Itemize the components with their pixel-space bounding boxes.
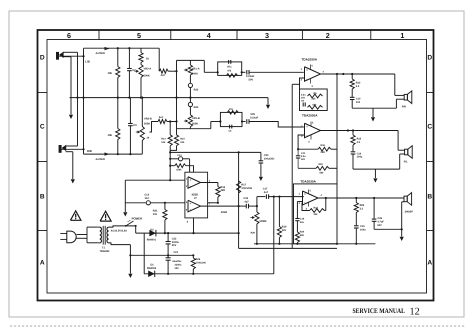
capacitor C2	[128, 48, 130, 68]
circle R23 link	[189, 98, 191, 103]
svg-text:6: 6	[67, 31, 71, 40]
wire gnd stub ch2	[374, 169, 376, 178]
junction supply top	[336, 73, 338, 75]
svg-text:22R: 22R	[321, 151, 326, 154]
circle R22 link	[189, 75, 191, 83]
power switch SW1	[126, 221, 134, 226]
capacitor C14 104 zobel2	[351, 151, 356, 153]
svg-text:R23: R23	[194, 106, 199, 109]
capacitor C3	[129, 98, 131, 124]
svg-text:25V: 25V	[172, 244, 177, 247]
svg-text:8: 8	[187, 220, 189, 223]
sub amp box	[294, 184, 338, 244]
capacitor C26 4.7uF output	[373, 198, 375, 219]
signal arrow L channel	[105, 47, 110, 50]
warning triangle 1	[70, 211, 81, 220]
speaker SP3 SW/SP	[404, 196, 407, 202]
capacitor C15 104 zobel3	[354, 225, 359, 227]
svg-text:5: 5	[137, 31, 141, 40]
svg-text:4558: 4558	[192, 192, 199, 196]
svg-text:500K: 500K	[144, 75, 150, 78]
wire U1B output	[201, 205, 239, 207]
capacitor C7 0.22uF	[246, 119, 248, 124]
capacitor C11 fb2	[297, 149, 299, 156]
svg-text:VR1-A: VR1-A	[192, 67, 200, 70]
warning triangle 2	[100, 211, 111, 221]
resistor R4 4u7 series	[158, 119, 167, 123]
svg-text:R23: R23	[314, 206, 319, 209]
svg-text:104u: 104u	[357, 156, 363, 159]
svg-text:-: -	[306, 133, 307, 137]
svg-text:RN4001: RN4001	[147, 239, 157, 242]
wire jack2 shield down	[72, 152, 74, 179]
diode D2 RN4001	[149, 230, 156, 237]
svg-text:+: +	[190, 202, 192, 206]
svg-text:500K: 500K	[192, 123, 198, 126]
wire fb box to C4	[242, 71, 246, 73]
resistor R1 1k	[140, 48, 142, 52]
svg-text:R71: R71	[227, 66, 232, 69]
svg-text:+: +	[306, 124, 308, 128]
svg-text:4: 4	[323, 70, 325, 73]
svg-text:10k: 10k	[108, 72, 113, 75]
wire rail corner down	[169, 152, 171, 180]
resistor R14 10k	[169, 122, 171, 135]
junction mix bus top	[175, 70, 177, 72]
supply vertical rail	[336, 74, 338, 185]
resistor R24 680	[295, 232, 299, 243]
svg-text:4u750H: 4u750H	[96, 158, 105, 161]
outer amp rail	[239, 247, 337, 249]
svg-text:22M4: 22M4	[221, 211, 228, 214]
potentiometer VR2-A 500K	[139, 65, 143, 78]
parallel RC loop R7/C5	[218, 62, 242, 76]
wire speaker2 terminals	[398, 149, 405, 151]
svg-text:2.2u: 2.2u	[301, 93, 306, 96]
resistor R15 22k	[176, 122, 178, 135]
inner drawing frame	[47, 40, 427, 294]
ground arrow input	[123, 212, 127, 216]
svg-text:C: C	[427, 123, 432, 130]
svg-text:50V: 50V	[377, 224, 382, 227]
wire IC2 output	[321, 73, 395, 75]
svg-text:R20: R20	[251, 232, 256, 235]
svg-text:10k: 10k	[153, 213, 158, 216]
svg-text:104: 104	[145, 197, 150, 200]
svg-text:4u7: 4u7	[159, 116, 164, 119]
junction amp rail R19	[278, 243, 280, 245]
junction IC2 out a	[342, 73, 344, 75]
svg-text:4: 4	[321, 194, 323, 197]
resistor R16 100k	[169, 165, 171, 167]
svg-text:A: A	[40, 260, 45, 267]
ground arrow ch2	[373, 178, 377, 182]
resistor R11 680 fb1	[308, 105, 323, 109]
svg-text:B: B	[427, 193, 432, 200]
junction R19 top	[278, 196, 280, 198]
junction IC4 out C26	[373, 197, 375, 199]
svg-text:5: 5	[312, 122, 314, 125]
svg-text:1k: 1k	[147, 137, 150, 140]
svg-text:5: 5	[312, 65, 314, 68]
junction IC3 out b	[347, 129, 349, 131]
resistor R12 2.2 zobel	[351, 74, 353, 79]
bottom scan artifact dotted line	[10, 325, 466, 327]
wire IC3 output	[321, 130, 399, 132]
parallel RC loop R9/C6	[220, 112, 242, 126]
capacitor C22 3300u	[167, 233, 169, 241]
svg-text:VR2-B: VR2-B	[144, 117, 152, 120]
wire speaker1 drop	[394, 74, 396, 95]
svg-text:0.22uF: 0.22uF	[250, 117, 259, 120]
svg-text:2: 2	[299, 202, 301, 205]
wire U1A input line	[125, 179, 185, 181]
wire mid rail ground stub	[267, 98, 269, 105]
junction R18 bottom	[217, 202, 219, 204]
wire minus rail	[144, 273, 274, 275]
capacitor C13 104	[146, 201, 150, 205]
wire plug to transformer top	[77, 234, 88, 236]
ground arrow C20	[259, 177, 263, 181]
svg-text:D: D	[40, 55, 45, 62]
wire secondary top	[109, 226, 136, 227]
wire VR1-A to fb box	[204, 71, 217, 73]
junction U1A input	[169, 179, 171, 181]
junction minus rail R26	[192, 273, 194, 275]
resistor R25 2.2 zobel3	[355, 198, 357, 203]
svg-text:C9: C9	[301, 100, 305, 103]
junction jack1 box edge	[82, 55, 84, 57]
op-amp IC3 TDA2030A	[305, 123, 321, 138]
svg-text:A: A	[427, 260, 432, 267]
wire zobel1 bottom	[352, 107, 396, 109]
junction amp rail pot	[256, 243, 258, 245]
feedback box ch1	[300, 89, 328, 111]
svg-text:VR1-B: VR1-B	[192, 117, 200, 120]
wire jack1 shield down	[70, 57, 72, 115]
junction mid rail R2	[76, 97, 78, 99]
svg-text:R22: R22	[319, 163, 324, 166]
wire rectifier plus rail	[136, 232, 239, 234]
svg-text:16V: 16V	[301, 97, 306, 100]
preamp top rail	[170, 151, 261, 153]
wire switch down	[135, 226, 137, 233]
capacitor C9 fb1	[302, 103, 304, 107]
feedback R23 22k	[325, 198, 327, 211]
svg-text:500K: 500K	[144, 123, 150, 126]
svg-text:TDA2030A: TDA2030A	[300, 179, 316, 183]
svg-text:B: B	[40, 193, 45, 200]
resistor R6 22k fb1	[308, 94, 323, 98]
junction bus D2 rail	[238, 232, 240, 234]
svg-text:2: 2	[301, 79, 303, 82]
junction pin8 rail	[192, 232, 194, 234]
svg-text:F/L: F/L	[404, 160, 408, 163]
svg-text:C11: C11	[301, 152, 306, 155]
svg-text:47k: 47k	[227, 69, 232, 72]
svg-text:10k: 10k	[161, 141, 166, 144]
capacitor C6 bottom edge	[229, 125, 231, 129]
capacitor C17 4u7	[257, 196, 266, 198]
svg-text:3: 3	[308, 141, 310, 144]
svg-text:L/B: L/B	[85, 59, 90, 63]
capacitor C5 top edge	[228, 60, 230, 64]
svg-text:47K: 47K	[229, 108, 234, 111]
svg-text:43R: 43R	[220, 189, 225, 192]
svg-text:C3: C3	[133, 124, 137, 127]
wire top rail L channel	[84, 47, 160, 49]
resistor R13 2.2 zobel2	[352, 131, 354, 136]
svg-text:+: +	[304, 192, 306, 196]
svg-text:C6: C6	[229, 129, 233, 132]
svg-text:4u750H: 4u750H	[96, 52, 105, 55]
svg-text:3: 3	[265, 31, 269, 40]
svg-text:TDA2030A: TDA2030A	[302, 57, 318, 61]
junction IC4 out zobel	[355, 197, 357, 199]
resistor R18 43R	[217, 183, 219, 187]
svg-text:#7: #7	[194, 197, 197, 200]
svg-text:104u: 104u	[360, 229, 366, 232]
wire jack1 ground bus	[77, 52, 79, 146]
junction IC3 out zobel	[352, 129, 354, 131]
svg-text:F/R: F/R	[402, 106, 406, 109]
svg-text:VR2-A: VR2-A	[144, 68, 152, 71]
svg-text:2.2: 2.2	[360, 207, 364, 210]
svg-text:10k: 10k	[108, 134, 113, 137]
junction zero rail left	[129, 254, 131, 256]
op-amp IC4 TDA2030A	[303, 191, 319, 205]
supply rail left vertical	[291, 84, 293, 248]
wire minus rail corner	[273, 197, 275, 274]
wire IC3 inverting	[298, 135, 304, 149]
wire zobel3 rail end	[374, 243, 376, 245]
wire IC2 inverting	[300, 78, 305, 89]
svg-text:1k: 1k	[146, 58, 149, 61]
svg-text:+: +	[306, 68, 308, 72]
svg-text:2: 2	[301, 135, 303, 138]
svg-text:4: 4	[207, 31, 211, 40]
speaker SP2 F/L	[405, 149, 408, 155]
svg-text:2: 2	[326, 31, 330, 40]
capacitor C10 104 zobel	[350, 96, 355, 98]
svg-text:2.2: 2.2	[356, 85, 360, 88]
junction amp rail zobel3	[355, 243, 357, 245]
junction speaker3 return	[401, 228, 403, 230]
ground arrow transformer	[128, 274, 132, 278]
resistor R26 270 1/2W	[192, 255, 194, 258]
svg-text:4u7: 4u7	[161, 74, 166, 77]
mix bus vertical	[176, 60, 178, 121]
svg-text:2.2: 2.2	[357, 141, 361, 144]
svg-text:R6: R6	[314, 92, 318, 95]
junction R21 top	[164, 202, 166, 204]
svg-text:POWER: POWER	[132, 217, 143, 221]
svg-text:C2: C2	[132, 69, 136, 72]
outer drawing frame	[38, 30, 434, 301]
svg-text:22u: 22u	[300, 221, 305, 224]
ground arrow mid rail	[266, 105, 270, 109]
svg-text:-: -	[306, 77, 307, 81]
wire jack2 box edge vertical	[83, 56, 85, 154]
resistor R17 47R 1/2W	[237, 181, 241, 193]
top zone ticks	[98, 30, 100, 40]
ground arrow below jack1	[69, 115, 73, 119]
op-amp U1A	[188, 177, 201, 189]
svg-text:12: 12	[410, 307, 420, 318]
svg-text:RN4005: RN4005	[147, 267, 157, 270]
diode D1 RN4005	[148, 271, 155, 278]
svg-text:D: D	[427, 55, 432, 62]
junction U1B out bus	[238, 205, 240, 207]
svg-text:500K: 500K	[192, 73, 198, 76]
svg-text:680: 680	[313, 104, 318, 107]
svg-text:+: +	[190, 178, 192, 182]
junction minus rail C21	[167, 273, 169, 275]
svg-text:SERVICE MANUAL: SERVICE MANUAL	[353, 308, 406, 315]
wire VR1-B to fb box 2	[211, 121, 221, 123]
resistor R2 10k	[117, 48, 119, 66]
junction mix bus bottom	[175, 120, 177, 122]
input jack J1 (L)	[56, 52, 58, 59]
svg-text:SW/SP: SW/SP	[405, 210, 414, 213]
resistor R21 10k	[164, 203, 166, 210]
svg-text:1: 1	[209, 179, 211, 182]
svg-text:4u7: 4u7	[244, 200, 249, 203]
junction bottom rail R5	[117, 153, 119, 155]
svg-text:100u/25v: 100u/25v	[264, 158, 275, 161]
signal arrow R channel	[105, 152, 110, 155]
svg-text:TRANSF: TRANSF	[100, 250, 111, 253]
junction plus rail C22	[167, 232, 169, 234]
op-amp IC2 TDA2030A	[305, 67, 321, 82]
svg-text:16V: 16V	[301, 158, 306, 161]
potentiometer VR3 50KB	[256, 197, 258, 212]
svg-text:-: -	[190, 207, 191, 211]
svg-text:R22: R22	[194, 89, 199, 92]
junction tone mid	[189, 97, 191, 99]
wire fb box2 to C7	[242, 121, 246, 123]
svg-text:5: 5	[310, 190, 312, 193]
junction preamp rail bus	[238, 151, 240, 153]
junction bottom rail C3	[129, 153, 131, 155]
junction plus rail R21	[164, 232, 166, 234]
input jack J2 (R)	[59, 145, 61, 152]
wire speaker2 drop	[397, 131, 399, 151]
svg-text:3: 3	[312, 85, 314, 88]
svg-text:270/1/2W: 270/1/2W	[196, 261, 207, 264]
wire bottom rail R channel	[84, 153, 143, 155]
junction zero rail R26	[192, 254, 194, 256]
svg-text:1: 1	[400, 31, 404, 40]
svg-text:3: 3	[306, 207, 308, 210]
junction IC2 out zobel	[351, 73, 353, 75]
ground arrow jack2	[71, 179, 75, 183]
svg-text:4u7: 4u7	[264, 191, 269, 194]
ground arrow ch1	[371, 117, 375, 121]
svg-text:TDA2030A: TDA2030A	[302, 114, 318, 118]
junction pot top	[256, 205, 258, 207]
right zone ticks	[427, 92, 434, 94]
op-amp U1 4558 box	[185, 172, 208, 218]
svg-text:50V: 50V	[249, 79, 254, 82]
svg-text:22k: 22k	[180, 141, 185, 144]
resistor R5 10k	[117, 98, 119, 129]
left zone ticks	[38, 92, 48, 94]
wire secondary bottom	[109, 243, 131, 245]
svg-text:R/B: R/B	[87, 149, 92, 153]
junction mix bus mid	[175, 97, 177, 99]
svg-text:C14: C14	[177, 154, 182, 157]
wire input gnd vertical	[124, 180, 126, 212]
ground arrow speaker3	[400, 237, 404, 241]
svg-text:D2: D2	[150, 228, 154, 231]
wire zobel2 bottom	[353, 168, 400, 170]
balance frame VR1-A	[177, 59, 205, 61]
junction zero rail C22	[167, 254, 169, 256]
wire IC4 output	[318, 197, 404, 199]
wire U1B input line	[125, 202, 146, 204]
potentiometer VR1-B 500K	[188, 115, 192, 127]
mix bus 2 vertical	[238, 152, 240, 248]
svg-text:25V: 25V	[175, 267, 180, 270]
svg-text:104: 104	[356, 101, 361, 104]
balance frame VR1-B	[177, 128, 211, 130]
svg-text:VR3M: VR3M	[259, 220, 266, 223]
wire U1A output	[201, 182, 218, 184]
junction preamp branch	[169, 120, 171, 122]
svg-text:47R/1/2W: 47R/1/2W	[241, 187, 252, 190]
resistor R3 4u7 series	[159, 69, 168, 73]
junction supply bottom	[336, 243, 338, 245]
wire speaker3 return	[402, 201, 404, 203]
wire IC4 inverting chain	[297, 201, 302, 203]
wire preamp in cap	[169, 158, 171, 160]
wire gnd stub ch1	[372, 108, 374, 117]
svg-text:22k: 22k	[314, 213, 319, 216]
transformer T1 core	[102, 226, 104, 245]
svg-text:22k: 22k	[312, 98, 317, 101]
junction amp rail R24	[296, 243, 298, 245]
svg-text:1: 1	[301, 68, 303, 71]
svg-text:680: 680	[320, 171, 325, 174]
AC plug P1	[67, 231, 76, 243]
amp ground rail	[254, 243, 375, 245]
svg-text:-: -	[190, 184, 191, 188]
wire fb2 row1	[298, 148, 318, 150]
wire C26 to speaker return	[374, 228, 402, 230]
svg-text:-: -	[304, 201, 305, 205]
capacitor C4 0.22uF	[246, 70, 248, 75]
capacitor C18 4u7	[245, 204, 247, 209]
wire minus branch vertical	[143, 233, 145, 274]
svg-text:22k: 22k	[282, 229, 287, 232]
wire fb2 row2	[298, 167, 316, 169]
svg-text:C21: C21	[174, 251, 179, 254]
wire U1 pin8 down	[193, 218, 195, 233]
transformer T1 secondary	[107, 227, 109, 243]
resistor R19 22k	[278, 197, 280, 227]
junction top rail C2	[128, 47, 130, 49]
svg-text:100k: 100k	[176, 169, 182, 172]
capacitor C20 100u/25v	[260, 152, 262, 160]
junction IC4 out fb	[325, 197, 327, 199]
wire speaker1 terminals	[395, 94, 404, 96]
speaker SP1 F/R	[404, 94, 407, 100]
svg-text:2.2u: 2.2u	[301, 155, 306, 158]
svg-text:680: 680	[300, 234, 305, 237]
capacitor C16 22u	[295, 218, 299, 220]
wire plug to transformer bottom	[77, 237, 88, 239]
